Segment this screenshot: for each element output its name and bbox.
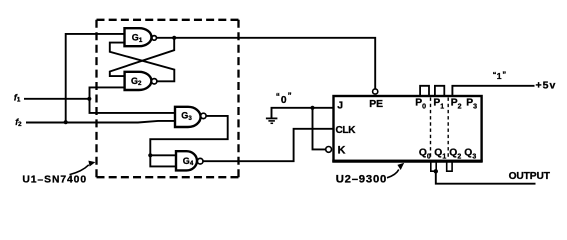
svg-text:K: K <box>338 144 346 156</box>
svg-text:”: ” <box>288 91 292 100</box>
svg-text:“: “ <box>276 92 280 101</box>
svg-text:U2–9300: U2–9300 <box>336 173 387 185</box>
svg-text:CLK: CLK <box>336 125 357 136</box>
svg-text:+5v: +5v <box>536 80 557 92</box>
svg-text:0: 0 <box>281 95 287 106</box>
svg-text:J: J <box>337 100 343 112</box>
svg-text:1: 1 <box>497 71 502 81</box>
svg-text:OUTPUT: OUTPUT <box>509 171 551 182</box>
svg-text:U1–SN7400: U1–SN7400 <box>22 175 87 186</box>
svg-text:”: ” <box>502 70 506 79</box>
svg-text:PE: PE <box>369 99 383 110</box>
